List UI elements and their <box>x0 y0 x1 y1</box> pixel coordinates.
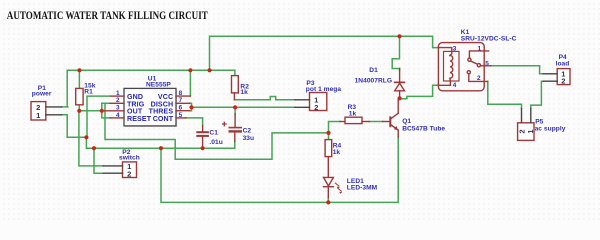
wire TRIG jog <box>102 103 110 111</box>
svg-text:CONT: CONT <box>153 115 174 123</box>
resistor R3 1k <box>340 104 369 123</box>
svg-text:2: 2 <box>517 129 526 133</box>
svg-text:SRU-12VDC-SL-C: SRU-12VDC-SL-C <box>461 36 517 43</box>
relay armature <box>471 61 478 64</box>
resistor R2 1k <box>232 76 250 100</box>
svg-text:.01u: .01u <box>209 139 222 146</box>
junction C2 top <box>233 105 237 109</box>
junction GND corner <box>84 135 88 139</box>
svg-text:C1: C1 <box>209 130 218 137</box>
connector P1 power <box>31 85 62 120</box>
diode D1 1N4007RLG <box>355 67 406 98</box>
555 pin 2 TRIG <box>110 102 124 104</box>
wire R3 right to Q1 base <box>369 121 382 123</box>
wire P1 pin1 to GND node <box>62 115 87 138</box>
555 pin 4 RESET <box>110 117 124 119</box>
LED1 LED-3MM <box>324 177 378 197</box>
wire R1-OUT node horizontal <box>79 105 104 111</box>
svg-text:7: 7 <box>179 97 183 104</box>
wire RESET jog <box>102 111 110 118</box>
svg-text:1N4007RLG: 1N4007RLG <box>355 78 392 85</box>
555 pin 8 VCC <box>176 95 190 97</box>
svg-text:AUTOMATIC WATER TANK FILLING C: AUTOMATIC WATER TANK FILLING CIRCUIT <box>7 8 208 22</box>
svg-text:2: 2 <box>127 169 131 178</box>
555 pin 6 THRES <box>176 110 190 112</box>
wire sense node horizontal to P3 pin2 <box>192 106 296 108</box>
junction GND drop <box>159 146 163 150</box>
svg-text:power: power <box>32 91 52 98</box>
svg-text:3: 3 <box>116 105 120 112</box>
555 pin 3 OUT <box>105 110 124 112</box>
svg-text:R1: R1 <box>84 88 93 95</box>
transistor Q1 BC547B <box>383 99 446 137</box>
capacitor C1 .01u <box>196 126 223 149</box>
svg-text:RESET: RESET <box>127 115 152 123</box>
svg-text:2: 2 <box>314 103 318 112</box>
svg-text:5: 5 <box>485 61 489 68</box>
junction LED bottom rail <box>326 200 330 204</box>
junction rail riser <box>207 68 211 72</box>
junction OUT node <box>100 109 104 113</box>
junction C1 bottom <box>201 146 205 150</box>
wire 555 VCC pin8 riser <box>189 70 191 96</box>
junction P2 pin2 branch <box>92 146 96 150</box>
junction sense node <box>189 105 193 109</box>
svg-text:BC547B Tube: BC547B Tube <box>402 126 445 133</box>
wire C2 top lead <box>234 107 236 114</box>
svg-text:1k: 1k <box>333 149 341 156</box>
wire Q1 collector node to relay coil pin4 <box>400 85 439 99</box>
svg-text:3: 3 <box>453 45 457 52</box>
junction R3 R4 node <box>326 131 330 135</box>
junction rail D1 <box>397 34 401 38</box>
svg-text:1: 1 <box>116 90 120 97</box>
wire P2 pin1 net <box>79 111 104 166</box>
wire R3 left jog from node <box>329 122 340 133</box>
wire GND drop to bottom rail <box>161 137 398 203</box>
wire R1 top lead <box>78 70 80 88</box>
svg-text:C2: C2 <box>243 128 252 135</box>
svg-text:NE555P: NE555P <box>146 82 171 89</box>
svg-text:1k: 1k <box>349 110 357 117</box>
555 pin 5 CONT <box>176 117 186 119</box>
junction rail pin8 <box>188 68 192 72</box>
junction R1 bottom <box>77 109 81 113</box>
resistor R4 1k <box>325 140 341 178</box>
wire LED1 bottom lead <box>327 198 329 203</box>
wire R4 top lead <box>328 133 330 140</box>
resistor R1 15k <box>76 83 96 105</box>
svg-text:6: 6 <box>179 105 183 112</box>
svg-text:1k: 1k <box>240 89 248 96</box>
svg-text:D1: D1 <box>369 67 378 74</box>
LED1 emission arrows <box>335 183 339 187</box>
svg-text:ac supply: ac supply <box>535 126 566 133</box>
connector P5 ac supply <box>517 109 565 141</box>
wire P4 pin2 to P5 right pin <box>531 81 544 108</box>
wire D1 top zigzag from rail <box>392 36 399 70</box>
555 pin 7 DISCH <box>176 102 190 104</box>
capacitor C2 33u polarized <box>222 114 254 142</box>
wire GND pin1 to left drop <box>87 96 109 137</box>
svg-text:switch: switch <box>119 155 140 162</box>
wire R2 bottom to P3 pin1 with hop <box>234 97 295 100</box>
connector P3 pot 1 mega <box>295 80 341 112</box>
svg-text:4: 4 <box>116 112 120 119</box>
wire VCC rail upper (to relay coil) <box>210 36 439 70</box>
svg-text:8: 8 <box>179 90 183 97</box>
wire P2 pin2 net <box>94 148 103 173</box>
wire GND horizontal y148 <box>86 137 234 148</box>
wire relay pin5 to P4 pin1 <box>491 66 544 74</box>
wire relay pin2 to P5 left pin <box>488 81 522 108</box>
relay coil winding <box>450 55 453 78</box>
svg-text:LED-3MM: LED-3MM <box>347 184 378 191</box>
relay K1 SRU-12VDC-SL-C <box>438 29 516 91</box>
wire DISCH jog to sense node <box>190 103 192 110</box>
junction D1 Q1 collector <box>398 96 402 100</box>
svg-text:4: 4 <box>453 82 457 89</box>
svg-text:33u: 33u <box>243 135 255 142</box>
wire VCC rail lower <box>67 70 235 107</box>
svg-text:load: load <box>556 61 570 68</box>
555 pin 1 GND <box>110 95 124 97</box>
op-amp U1 NE555P box <box>105 75 191 127</box>
wire TRIG branch to R3/R4 node <box>105 103 329 159</box>
wire P1 pin2 stub <box>62 106 68 108</box>
junction rail R1 <box>77 68 81 72</box>
svg-text:2: 2 <box>561 77 565 86</box>
relay outer box <box>438 43 484 91</box>
svg-text:P5: P5 <box>535 119 543 126</box>
connector P4 load <box>543 54 570 85</box>
svg-text:2: 2 <box>116 97 120 104</box>
svg-text:Q1: Q1 <box>402 118 411 125</box>
wire CONT to C1 <box>186 118 203 126</box>
relay coil box <box>444 51 460 81</box>
connector P2 switch <box>103 149 139 179</box>
svg-text:5: 5 <box>179 112 183 119</box>
